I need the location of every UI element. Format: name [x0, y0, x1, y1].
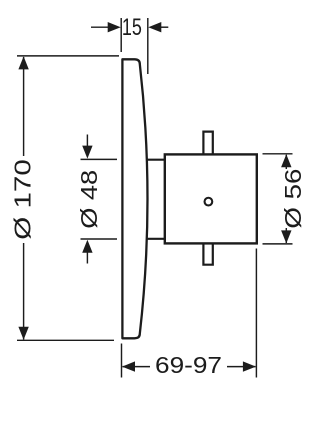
dim line upper segment: [285, 155, 287, 169]
neck top line: [146, 159, 164, 161]
dim line left segment: [123, 366, 151, 368]
extension line left (wall face): [120, 18, 122, 52]
arrow down at bottom tick: [281, 230, 291, 243]
extension line right (cartridge face): [255, 249, 257, 378]
extension tick top: [263, 153, 293, 155]
dim tail left: [91, 26, 110, 28]
svg-text:69-97: 69-97: [155, 352, 222, 378]
dim line lower segment: [23, 243, 25, 340]
svg-text:Ø 170: Ø 170: [10, 159, 36, 240]
dimension 69-97 (installation depth, bottom): [122, 249, 257, 378]
extension line right (plate front): [147, 18, 149, 74]
svg-text:Ø 48: Ø 48: [76, 170, 102, 229]
bottom tab: [203, 244, 212, 265]
extension tick bottom: [263, 243, 293, 245]
dimension Ø170 (plate diameter, left): [17, 56, 119, 340]
screw hole circle: [205, 198, 213, 206]
arrow pointing left at right ext: [148, 22, 161, 32]
svg-text:15: 15: [122, 14, 142, 41]
dimension Ø48 (neck diameter): [81, 135, 118, 264]
dim line lower segment: [285, 228, 287, 243]
arrow up onto bottom tick: [82, 240, 92, 253]
dimension Ø56 (cartridge height, right): [263, 154, 293, 244]
extension tick bottom: [81, 238, 118, 240]
leader above: [86, 135, 88, 148]
arrow down onto top tick: [82, 146, 92, 159]
top tab: [203, 132, 212, 154]
dim line upper segment: [23, 57, 25, 156]
svg-text:Ø 56: Ø 56: [280, 169, 306, 229]
arrow pointing right at left ext: [108, 22, 121, 32]
extension tick top: [81, 158, 118, 160]
arrow down at bottom tick: [18, 327, 28, 340]
neck bottom line: [146, 238, 164, 240]
neck between plate and cartridge (Ø48 hub): [146, 160, 164, 239]
arrow up at top tick: [18, 56, 28, 69]
dim tail right: [159, 26, 168, 28]
cartridge box U1: [165, 154, 257, 243]
arrow left at left ext: [122, 361, 135, 371]
extension line left (wall face): [121, 344, 123, 378]
dimension 15 (plate projection, top): [91, 18, 168, 74]
dim line right segment: [227, 366, 256, 368]
leader below: [86, 252, 88, 264]
escutcheon plate (side view, Ø170): [122, 59, 147, 338]
arrow up at top tick: [281, 154, 291, 167]
extension tick top: [17, 55, 119, 57]
extension tick bottom: [17, 339, 114, 341]
arrow right at right ext: [243, 361, 256, 371]
